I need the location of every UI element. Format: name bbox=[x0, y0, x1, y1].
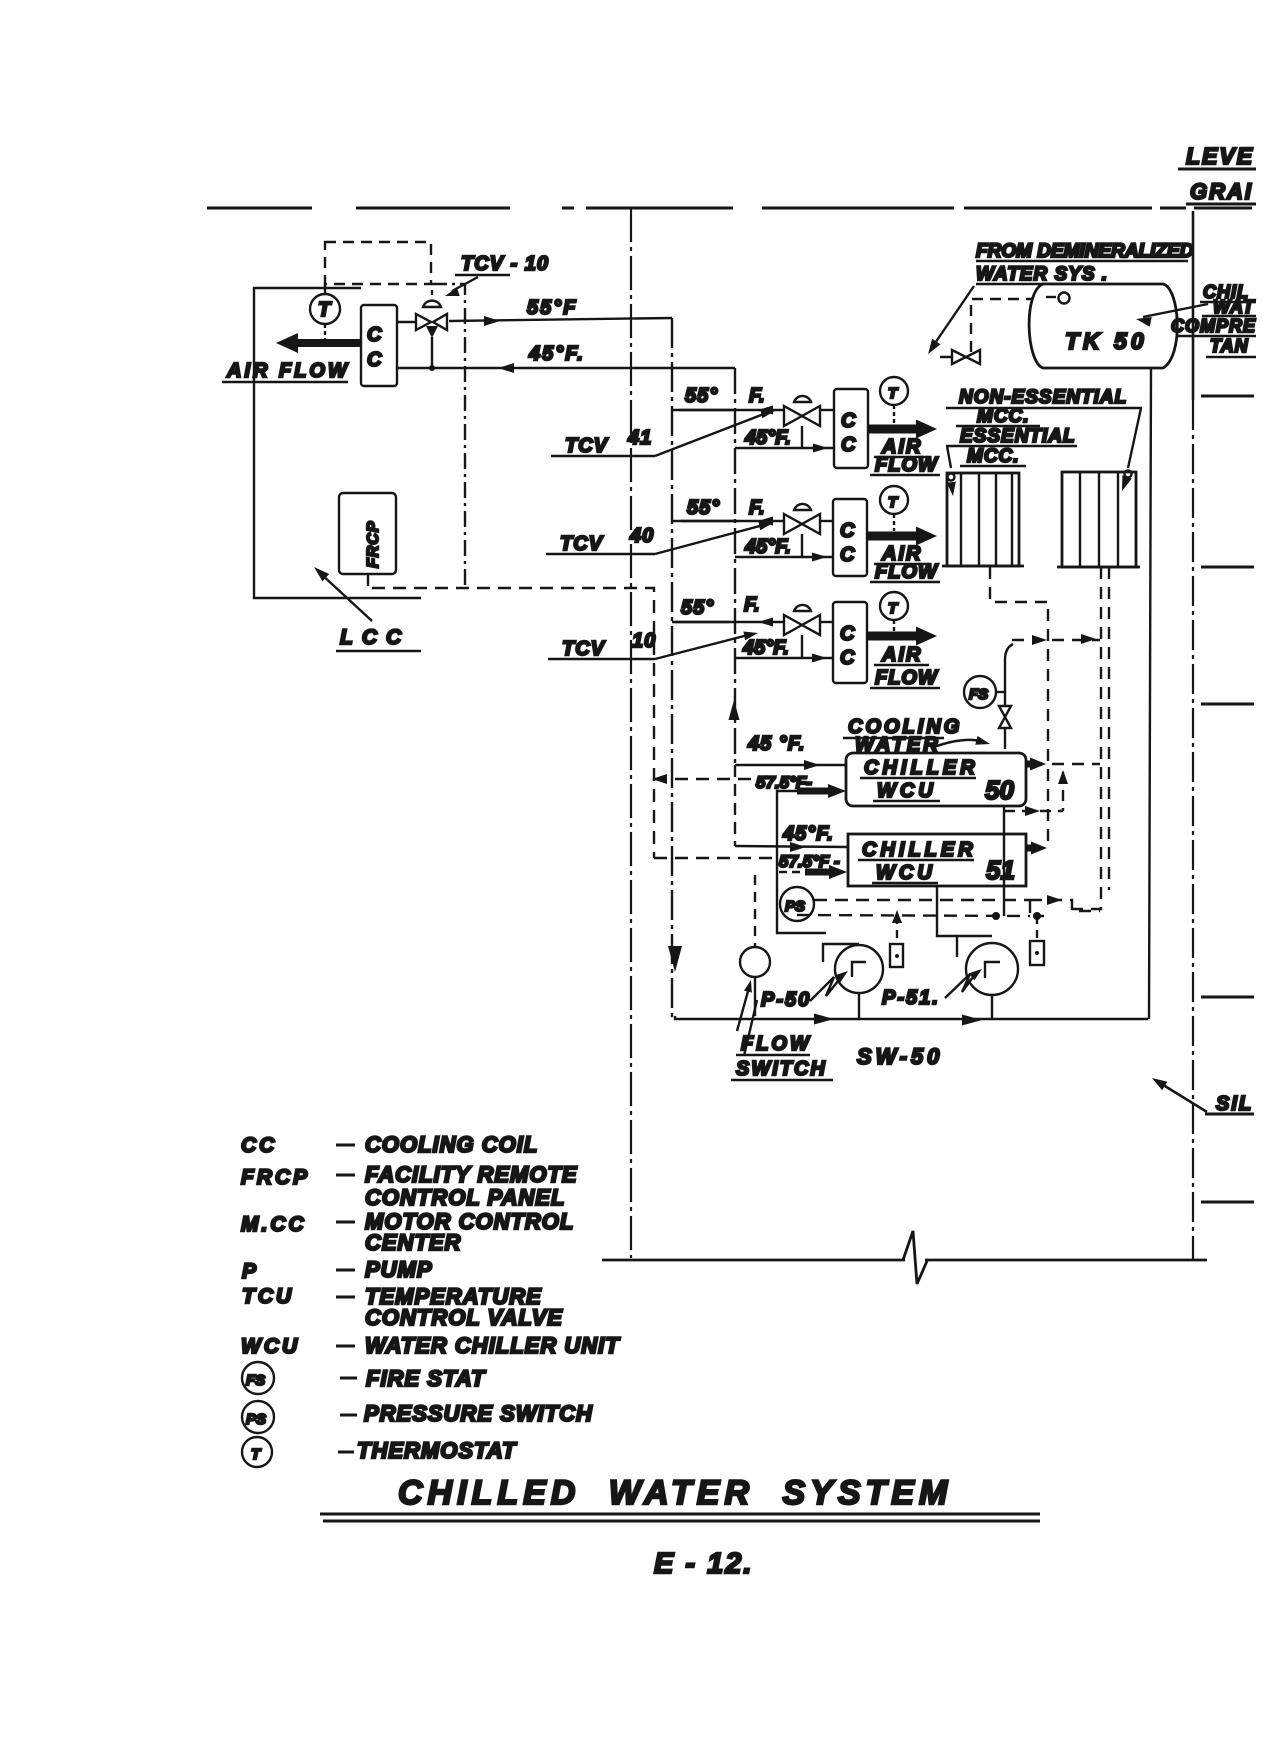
pressure switch PS bbox=[780, 887, 814, 921]
svg-text:SIL: SIL bbox=[1216, 1093, 1253, 1115]
svg-text:WCU: WCU bbox=[876, 862, 936, 884]
svg-text:CHILLER: CHILLER bbox=[862, 839, 977, 861]
svg-text:T: T bbox=[251, 1446, 262, 1463]
break symbol on bottom line bbox=[903, 1231, 927, 1284]
svg-text:AIR: AIR bbox=[881, 644, 922, 666]
wire dashed loop at chiller50 bottom bbox=[1004, 810, 1063, 812]
wire main vertical dash-dot line bbox=[630, 208, 632, 1258]
motor control center box 1 (essential) bbox=[947, 473, 1019, 566]
svg-text:FLOW: FLOW bbox=[875, 561, 939, 583]
wire tank outlet down right side bbox=[1149, 368, 1151, 1019]
svg-text:P: P bbox=[242, 1260, 259, 1283]
svg-text:C: C bbox=[840, 647, 855, 669]
wire 45F chiller51 tap bbox=[735, 846, 848, 847]
cooling coil CC box row 2 bbox=[833, 499, 867, 576]
wire 55F line row 3 bbox=[672, 621, 784, 623]
svg-text:TK 50: TK 50 bbox=[1065, 328, 1148, 354]
wire dashed make-up line into tank bbox=[940, 299, 1038, 357]
svg-text:FACILITY REMOTE: FACILITY REMOTE bbox=[365, 1162, 578, 1187]
wire pump suction bottom line bbox=[675, 1016, 1148, 1019]
svg-text:SWITCH: SWITCH bbox=[736, 1058, 827, 1080]
svg-text:55°F: 55°F bbox=[527, 297, 577, 319]
wire 45F line row 1 bbox=[735, 447, 834, 449]
wire 45F line row 3 bbox=[735, 657, 833, 659]
wire right border vertical bbox=[1192, 211, 1195, 400]
svg-text:55°: 55° bbox=[685, 385, 718, 407]
svg-text:P-50: P-50 bbox=[761, 989, 811, 1011]
wire dash-dot boundary right of AHU bbox=[431, 284, 465, 588]
motor control center box 2 (non-essential) bbox=[1062, 472, 1136, 567]
valve on make-up line bbox=[952, 350, 966, 364]
svg-text:TCV - 10: TCV - 10 bbox=[461, 253, 549, 275]
svg-text:45°F.: 45°F. bbox=[744, 536, 791, 558]
valve TCV row 2 bbox=[784, 514, 802, 534]
svg-text:F.: F. bbox=[749, 497, 765, 519]
svg-text:GRAI: GRAI bbox=[1190, 179, 1253, 204]
svg-text:COOLING COIL: COOLING COIL bbox=[365, 1132, 538, 1157]
wire top border line bbox=[207, 207, 312, 210]
wire 55F line row 2 bbox=[672, 520, 784, 522]
svg-text:TAN: TAN bbox=[1210, 336, 1249, 356]
svg-text:THERMOSTAT: THERMOSTAT bbox=[357, 1438, 517, 1463]
wire FRCP stem bbox=[367, 574, 369, 586]
node 57.5F return to chiller 51 bbox=[654, 857, 778, 859]
valve TCV row 3 bbox=[784, 615, 802, 635]
svg-text:PS: PS bbox=[785, 898, 805, 915]
motor starter 2 bbox=[1036, 916, 1038, 941]
cooling coil CC box row 3 bbox=[833, 602, 867, 683]
valve TCV-10 (3-way) bbox=[416, 314, 431, 330]
svg-text:NON-ESSENTIAL: NON-ESSENTIAL bbox=[959, 387, 1127, 408]
svg-text:WATER CHILLER UNIT: WATER CHILLER UNIT bbox=[365, 1333, 620, 1358]
svg-text:CC: CC bbox=[241, 1134, 277, 1157]
wire 55F line row 1 bbox=[672, 409, 784, 411]
svg-text:SW-50: SW-50 bbox=[857, 1044, 943, 1069]
svg-text:WATER SYS .: WATER SYS . bbox=[976, 264, 1108, 285]
tank TK 50 bbox=[1029, 284, 1177, 368]
svg-text:10: 10 bbox=[632, 630, 656, 652]
wire 55F return header vertical bbox=[672, 318, 675, 1016]
motor starter 1 bbox=[896, 916, 898, 944]
svg-text:FS: FS bbox=[969, 686, 988, 703]
svg-text:C: C bbox=[840, 544, 855, 566]
leader from ESSENTIAL MCC to box1 bbox=[947, 446, 951, 468]
wire dashed line to cooling water riser bbox=[1012, 639, 1100, 641]
svg-text:PUMP: PUMP bbox=[365, 1257, 433, 1282]
svg-text:LCC: LCC bbox=[340, 626, 410, 649]
svg-text:WCU: WCU bbox=[877, 780, 937, 802]
svg-text:T: T bbox=[888, 600, 899, 617]
wire right border ticks bbox=[1201, 395, 1254, 398]
svg-text:C: C bbox=[841, 434, 856, 456]
svg-text:E - 12.: E - 12. bbox=[654, 1548, 753, 1580]
air flow thick arrow row 1 bbox=[868, 425, 918, 434]
wire dashed feeders from MCC box2 bbox=[1072, 567, 1101, 909]
svg-text:C: C bbox=[840, 623, 855, 645]
svg-text:M.CC: M.CC bbox=[241, 1213, 307, 1236]
dashed control box above TCV-10 bbox=[325, 242, 431, 284]
svg-text:LEVE: LEVE bbox=[1186, 143, 1254, 169]
svg-text:T: T bbox=[888, 494, 899, 511]
vent symbol in tank bbox=[1046, 296, 1056, 298]
thermostat T row 1 bbox=[880, 377, 908, 405]
svg-text:T: T bbox=[888, 385, 899, 402]
svg-text:TCV: TCV bbox=[562, 638, 606, 660]
svg-text:45°F.: 45°F. bbox=[528, 343, 585, 365]
svg-text:CHILLED WATER SYSTEM: CHILLED WATER SYSTEM bbox=[398, 1474, 952, 1512]
svg-text:TCU: TCU bbox=[242, 1285, 294, 1308]
wire chiller51 right thick arrow bbox=[1026, 845, 1032, 852]
wire 45F return AHU1 bbox=[397, 367, 735, 369]
svg-text:FLOW: FLOW bbox=[875, 667, 939, 689]
wire bottom horizontal line bbox=[602, 1259, 905, 1262]
wire 45F supply header vertical bbox=[734, 368, 736, 765]
chiller WCU 50 bbox=[846, 753, 1026, 806]
svg-text:41: 41 bbox=[627, 427, 652, 449]
svg-text:C: C bbox=[367, 324, 382, 346]
svg-text:55°: 55° bbox=[681, 597, 714, 619]
svg-text:F.: F. bbox=[749, 385, 765, 407]
svg-text:P-51.: P-51. bbox=[882, 987, 940, 1009]
svg-text:FRCP: FRCP bbox=[241, 1166, 310, 1189]
cooling water riser with valve bbox=[1005, 644, 1013, 749]
wire 45F chiller50 tap bbox=[735, 764, 846, 766]
node 57.5F return to chiller 50 bbox=[654, 778, 756, 780]
svg-text:ESSENTIAL: ESSENTIAL bbox=[960, 426, 1076, 447]
svg-text:MCC.: MCC. bbox=[967, 446, 1020, 467]
air flow thick arrow AHU1 bbox=[292, 339, 361, 347]
svg-text:AIR FLOW: AIR FLOW bbox=[226, 360, 350, 382]
wire dashed LCC line to right bbox=[372, 588, 654, 858]
pump P-50 bbox=[823, 944, 859, 962]
thermostat T1 bbox=[324, 284, 326, 295]
svg-text:40: 40 bbox=[629, 525, 654, 547]
svg-text:50: 50 bbox=[985, 775, 1014, 805]
node SIL label and arrow bbox=[1160, 1083, 1207, 1112]
wire 55F supply AHU1 bbox=[397, 321, 415, 323]
node FLOW SWITCH label with leaders bbox=[737, 984, 750, 1031]
wire 45F line row 2 bbox=[735, 556, 833, 558]
thermostat T row 2 bbox=[880, 486, 908, 514]
svg-text:FROM DEMINERALIZED: FROM DEMINERALIZED bbox=[976, 241, 1194, 262]
wire dashed control bus bbox=[797, 915, 1030, 916]
cooling coil CC box row 1 bbox=[834, 389, 868, 468]
wire chiller50 bottom stem bbox=[1003, 806, 1005, 916]
wire AHU enclosure left/top/bottom bbox=[254, 288, 421, 598]
svg-text:CHILLER: CHILLER bbox=[864, 757, 979, 779]
svg-text:COMPRE: COMPRE bbox=[1171, 316, 1256, 336]
svg-text:TCV: TCV bbox=[565, 435, 609, 457]
FRCP panel box bbox=[339, 493, 396, 574]
svg-text:FRCP: FRCP bbox=[365, 520, 382, 568]
svg-text:WCU: WCU bbox=[241, 1335, 300, 1358]
svg-text:CONTROL PANEL: CONTROL PANEL bbox=[365, 1185, 565, 1210]
svg-text:45°F.: 45°F. bbox=[742, 637, 789, 659]
svg-text:F.: F. bbox=[744, 594, 760, 616]
svg-text:TCV: TCV bbox=[560, 533, 604, 555]
svg-text:45 °F.: 45 °F. bbox=[747, 733, 805, 755]
air flow thick arrow row 2 bbox=[867, 532, 918, 541]
svg-text:C: C bbox=[367, 349, 382, 371]
svg-text:FS: FS bbox=[246, 1372, 265, 1389]
svg-text:FLOW: FLOW bbox=[875, 454, 939, 476]
cooling coil CC box AHU1 bbox=[361, 305, 397, 386]
svg-text:55°: 55° bbox=[687, 497, 720, 519]
svg-text:C: C bbox=[841, 410, 856, 432]
svg-text:MCC.: MCC. bbox=[977, 406, 1030, 427]
svg-text:FLOW: FLOW bbox=[741, 1033, 812, 1055]
wire dashed PS sensing line bbox=[814, 899, 1030, 901]
leader from NON-ESSENTIAL MCC to box2 bbox=[1128, 408, 1141, 468]
svg-text:PRESSURE SWITCH: PRESSURE SWITCH bbox=[364, 1401, 593, 1426]
svg-text:WAT: WAT bbox=[1213, 297, 1256, 317]
pump P-51 bbox=[957, 936, 992, 957]
valve TCV row 1 bbox=[784, 406, 802, 426]
flow switch SW-50 bbox=[740, 947, 770, 977]
wire pump2 discharge riser bbox=[937, 886, 957, 936]
svg-text:CENTER: CENTER bbox=[365, 1230, 461, 1255]
firestat FS bbox=[964, 676, 996, 708]
svg-text:51: 51 bbox=[986, 855, 1015, 885]
svg-text:C: C bbox=[840, 520, 855, 542]
air flow thick arrow row 3 bbox=[867, 632, 918, 641]
svg-text:45°F.: 45°F. bbox=[782, 823, 834, 845]
svg-text:CONTROL VALVE: CONTROL VALVE bbox=[365, 1305, 563, 1330]
wire pump1 discharge riser bbox=[777, 791, 826, 933]
wire chiller50 right thick arrow bbox=[1026, 761, 1032, 768]
wire dashed jog to MCC feeder bbox=[1030, 900, 1100, 911]
legend firestat symbol bbox=[242, 1362, 274, 1394]
legend thermostat symbol bbox=[242, 1437, 272, 1467]
legend pressure switch symbol bbox=[242, 1401, 274, 1433]
svg-text:T: T bbox=[318, 299, 332, 321]
chiller WCU 51 bbox=[848, 834, 1026, 886]
svg-text:PS: PS bbox=[246, 1411, 266, 1428]
wire dashed feeder from MCC box1 bbox=[990, 567, 1048, 848]
svg-text:FIRE STAT: FIRE STAT bbox=[366, 1366, 486, 1391]
thermostat T row 3 bbox=[880, 592, 908, 620]
svg-text:45°F.: 45°F. bbox=[744, 427, 791, 449]
